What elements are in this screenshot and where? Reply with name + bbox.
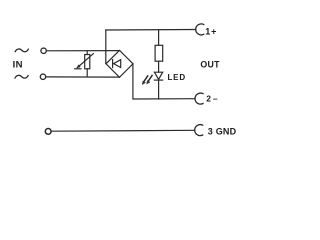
wire DC minus down and right [133, 64, 195, 99]
wire input line 2 [46, 76, 120, 78]
resistor [155, 30, 163, 72]
LED [142, 72, 163, 99]
svg-text:2–: 2– [206, 93, 219, 103]
svg-text:LED: LED [168, 73, 186, 82]
bridge rectifier [106, 50, 133, 77]
svg-text:IN: IN [13, 60, 23, 71]
input terminal circle 2 [40, 74, 45, 79]
AC tilde symbol input 1 [15, 49, 28, 52]
wire DC plus vertical [105, 30, 107, 64]
svg-text:OUT: OUT [200, 59, 220, 69]
input terminal circle 1 [41, 48, 46, 53]
AC tilde symbol input 2 [15, 75, 28, 78]
terminal 3 GND [195, 125, 203, 136]
wire input line 1 [47, 50, 120, 52]
ground terminal circle [45, 129, 51, 135]
svg-text:1+: 1+ [205, 26, 217, 36]
wire top plus rail [106, 29, 196, 32]
varistor [75, 51, 94, 77]
terminal 1+ [196, 24, 204, 35]
terminal 2- [195, 93, 203, 104]
wire ground [51, 129, 195, 132]
svg-text:3 GND: 3 GND [208, 127, 237, 137]
